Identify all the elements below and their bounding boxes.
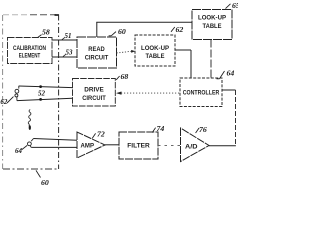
svg-text:58: 58 — [42, 27, 50, 36]
svg-text:68: 68 — [121, 72, 129, 81]
svg-text:74: 74 — [157, 124, 165, 133]
svg-text:52: 52 — [38, 90, 46, 98]
svg-text:CIRCUIT: CIRCUIT — [82, 95, 106, 102]
svg-text:62: 62 — [0, 98, 8, 106]
svg-text:LOOK-UP: LOOK-UP — [198, 15, 226, 22]
svg-text:53: 53 — [66, 49, 74, 57]
svg-text:CONTROLLER: CONTROLLER — [183, 90, 220, 97]
svg-text:LOOK-UP: LOOK-UP — [141, 45, 169, 52]
svg-text:65: 65 — [232, 1, 238, 10]
svg-text:READ: READ — [88, 46, 105, 53]
svg-text:51: 51 — [65, 32, 72, 40]
svg-text:CALIBRATION: CALIBRATION — [13, 45, 46, 52]
svg-text:60: 60 — [41, 178, 49, 187]
svg-text:60: 60 — [118, 27, 126, 36]
svg-text:76: 76 — [199, 125, 207, 134]
svg-text:A/D: A/D — [185, 145, 198, 151]
svg-text:AMP: AMP — [81, 143, 95, 149]
svg-text:TABLE: TABLE — [146, 53, 165, 60]
svg-text:CIRCUIT: CIRCUIT — [85, 54, 109, 61]
svg-text:62: 62 — [176, 25, 184, 34]
svg-text:ELEMENT: ELEMENT — [19, 52, 41, 59]
svg-text:FILTER: FILTER — [127, 143, 150, 150]
svg-text:72: 72 — [97, 129, 105, 138]
svg-text:TABLE: TABLE — [203, 23, 222, 30]
svg-text:64: 64 — [227, 68, 235, 77]
svg-text:DRIVE: DRIVE — [84, 87, 104, 94]
svg-text:64: 64 — [15, 147, 23, 155]
